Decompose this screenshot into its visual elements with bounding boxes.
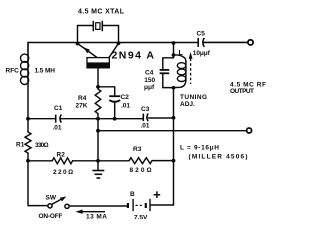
capacitor C2	[98, 87, 120, 119]
resistor R2 220ohm	[52, 158, 72, 164]
svg-text:10μμf: 10μμf	[193, 50, 211, 57]
wire crystal loop	[78, 26, 119, 44]
node tank top on rail	[172, 41, 176, 45]
node R3 right junction	[172, 159, 176, 163]
svg-text:.01: .01	[121, 103, 130, 110]
svg-text:2N94 A: 2N94 A	[112, 50, 155, 62]
svg-text:.01: .01	[53, 125, 62, 132]
svg-text:13 MA: 13 MA	[86, 213, 107, 219]
battery B 7.5V	[128, 199, 150, 211]
output terminal 1	[248, 40, 253, 45]
wire B+ vertical	[151, 88, 174, 205]
svg-text:1.5 MH: 1.5 MH	[35, 68, 56, 75]
svg-text:C5: C5	[197, 30, 206, 37]
node emitter junction	[76, 42, 80, 46]
svg-text:OUTPUT: OUTPUT	[230, 88, 254, 95]
svg-text:150: 150	[144, 77, 155, 84]
svg-text:C4: C4	[145, 69, 154, 76]
svg-text:220Ω: 220Ω	[53, 169, 73, 176]
svg-text:330Ω: 330Ω	[35, 142, 49, 149]
svg-text:C3: C3	[141, 106, 150, 113]
node collector junction	[117, 41, 121, 45]
inductor L tuning coil	[174, 55, 186, 88]
svg-text:SW: SW	[46, 195, 57, 202]
node tank top junction	[172, 53, 176, 57]
svg-text:ON-OFF: ON-OFF	[39, 213, 63, 219]
wire left rail bottom corner to switch	[28, 161, 48, 206]
svg-text:R2: R2	[57, 151, 66, 158]
svg-text:B: B	[130, 191, 135, 198]
node output line left	[96, 129, 100, 133]
capacitor C3	[143, 114, 148, 122]
wire base line to ground node	[97, 119, 99, 161]
resistor R3 820ohm	[129, 158, 152, 164]
output terminal 2	[247, 128, 252, 133]
svg-text:R1: R1	[16, 142, 25, 149]
resistor R4 27K	[95, 87, 101, 119]
node ground junction	[96, 159, 100, 163]
wire node line C1-C3	[28, 117, 174, 120]
node C3 right junction	[172, 116, 176, 120]
svg-text:7.5V: 7.5V	[134, 215, 148, 219]
wire rail to tank	[173, 43, 175, 55]
svg-text:27K: 27K	[76, 103, 88, 110]
svg-text:R3: R3	[133, 146, 142, 153]
capacitor C4 branch	[160, 56, 174, 88]
svg-text:RFC: RFC	[6, 68, 20, 75]
node C2 bottom junction	[113, 117, 117, 121]
battery plus sign	[154, 191, 161, 198]
capacitor C1	[56, 115, 62, 123]
node left rail junction	[26, 117, 30, 121]
svg-text:4.5 MC XTAL: 4.5 MC XTAL	[78, 9, 125, 16]
inductor RFC 1.5MH	[21, 54, 29, 119]
svg-text:.01: .01	[141, 122, 150, 129]
current arrow 13MA	[75, 210, 105, 214]
node R4 top junction	[96, 85, 100, 89]
wire output ground line	[98, 130, 246, 132]
switch SW on-off	[48, 196, 69, 208]
tuning slug dashed arrow	[189, 52, 193, 84]
node R1 bottom	[26, 159, 30, 163]
capacitor C5	[198, 38, 204, 47]
svg-text:L: L	[179, 50, 184, 57]
node tank bottom junction	[172, 86, 176, 90]
crystal X1 4.5MC	[93, 21, 102, 31]
svg-text:ADJ.: ADJ.	[180, 101, 195, 108]
wire top rail left corner to C5	[28, 43, 198, 56]
transistor Q1 2N94A	[78, 43, 119, 87]
wire C5 to output terminal 1	[204, 41, 248, 43]
svg-text:L = 9-16μH: L = 9-16μH	[180, 145, 219, 152]
node base line junction	[96, 117, 100, 121]
wire R2 line	[28, 160, 174, 162]
wire switch to battery	[69, 205, 127, 207]
svg-text:C1: C1	[54, 105, 63, 112]
resistor R1 330ohm	[25, 119, 31, 161]
svg-text:820Ω: 820Ω	[130, 167, 152, 174]
ground	[92, 161, 104, 178]
svg-text:C2: C2	[121, 94, 130, 101]
svg-text:R4: R4	[78, 95, 87, 102]
svg-text:μμf: μμf	[144, 84, 155, 91]
